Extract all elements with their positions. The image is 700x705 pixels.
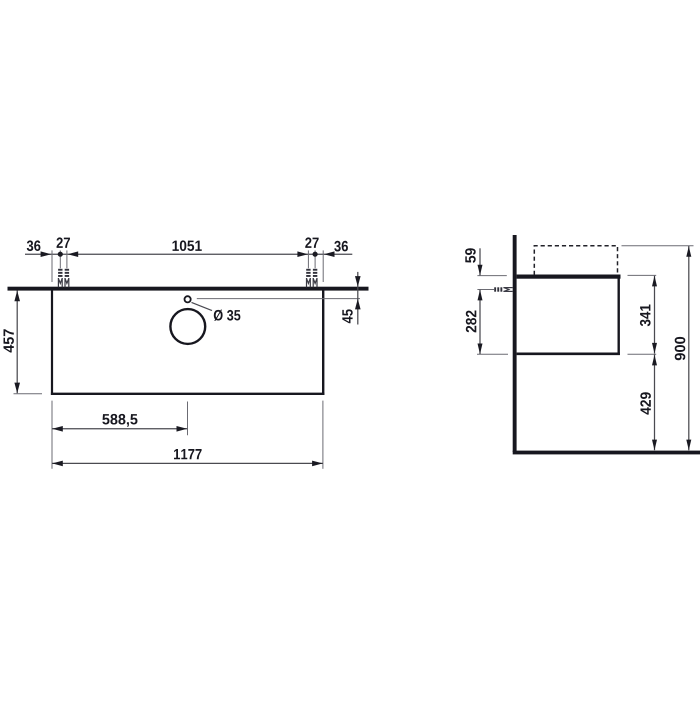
extension line bottom right <box>322 401 324 469</box>
dimension 45 line <box>357 272 359 325</box>
arrow up 341 <box>652 276 657 287</box>
extension line cabinet top left <box>477 275 506 277</box>
arrow down 457 <box>14 383 20 394</box>
arrow left 1177 <box>52 461 63 467</box>
arrow down 282 <box>478 344 483 355</box>
arrow down 341 <box>652 343 657 354</box>
countertop slab (side) <box>517 275 621 279</box>
dimension 900 line <box>688 246 690 450</box>
mounting bolt 3 (plan) <box>306 269 310 288</box>
extension line bottom center <box>187 402 189 436</box>
dimension 45 extension line <box>197 298 360 300</box>
extension line cabinet bottom left <box>477 353 508 355</box>
extension line bolt axis <box>477 289 494 291</box>
label 36 left <box>27 240 41 251</box>
dimension 457 line <box>16 291 18 394</box>
extension line bolt 1 <box>59 250 61 268</box>
dimension 282 line <box>479 290 481 354</box>
mounting bolt 2 (plan) <box>65 269 69 288</box>
label 429 <box>640 392 651 414</box>
extension line bolt 2 <box>66 250 68 268</box>
arrow right at x309.1 <box>297 251 308 257</box>
extension line cabinet right <box>322 250 324 282</box>
arrow left at x323.2 <box>324 251 335 257</box>
arrow left at x66.6 <box>68 251 79 257</box>
washbasin dashed outline <box>534 246 617 275</box>
label 900 <box>675 337 686 360</box>
label 27 left <box>57 237 70 248</box>
arrow down 59 <box>478 265 483 276</box>
label 282 <box>466 311 477 333</box>
label 341 <box>640 304 651 326</box>
extension line basin top <box>622 245 694 247</box>
extension line cabinet left <box>51 250 53 282</box>
arrow right 1177 <box>312 461 323 467</box>
cabinet right edge (side) <box>618 276 620 355</box>
dimension 59 line <box>479 248 481 275</box>
arrow up 45 <box>355 299 361 310</box>
extension line cabinet top right <box>628 274 657 276</box>
cabinet right edge <box>322 291 324 395</box>
arrow up 429 <box>652 355 657 366</box>
arrow up 457 <box>14 291 20 302</box>
wall line (plan) <box>8 287 369 291</box>
arrow down 900 <box>686 440 691 451</box>
label 1051 <box>173 240 202 251</box>
extension line 457 bottom <box>14 393 43 395</box>
label 45 <box>342 309 352 323</box>
arrow left 588,5 <box>52 426 63 432</box>
cabinet left edge <box>51 291 53 395</box>
extension line cabinet bottom right <box>628 353 657 355</box>
top dimension line <box>25 253 352 255</box>
label 1177 <box>174 449 202 459</box>
label 36 right <box>334 241 348 252</box>
arrow down 429 <box>652 440 657 451</box>
arrow right 588,5 <box>177 426 188 432</box>
dot at x60.2 <box>58 252 63 257</box>
extension line bolt 4 <box>314 250 316 268</box>
arrow up 900 <box>686 246 691 257</box>
dimension 429 line <box>654 354 656 450</box>
label Ø 35 <box>214 310 241 321</box>
label 588,5 <box>102 414 137 427</box>
dimension 1177 line <box>52 462 323 464</box>
label 27 right <box>305 237 318 248</box>
cabinet bottom (side) <box>517 352 620 355</box>
extension line bolt 3 <box>307 250 309 268</box>
extension line bottom left <box>51 401 53 469</box>
dimension 588,5 line <box>52 428 187 430</box>
arrow up 282 <box>478 290 483 301</box>
dot at x315.3 <box>313 252 318 257</box>
dimension 341 line <box>654 276 656 354</box>
mounting bolt 1 (plan) <box>58 269 62 288</box>
label 457 <box>4 329 14 352</box>
leader line to Ø35 label <box>192 302 213 310</box>
faucet hole Ø35 <box>185 296 191 302</box>
wall line (side) <box>513 235 517 452</box>
label 59 <box>465 248 476 263</box>
arrow right at x52 <box>41 251 52 257</box>
basin drain hole <box>170 309 205 344</box>
wall bolt (side) <box>494 287 513 291</box>
cabinet bottom edge <box>51 393 325 395</box>
mounting bolt 4 (plan) <box>313 269 317 288</box>
floor line <box>513 451 700 455</box>
arrow down 45 <box>355 276 361 287</box>
